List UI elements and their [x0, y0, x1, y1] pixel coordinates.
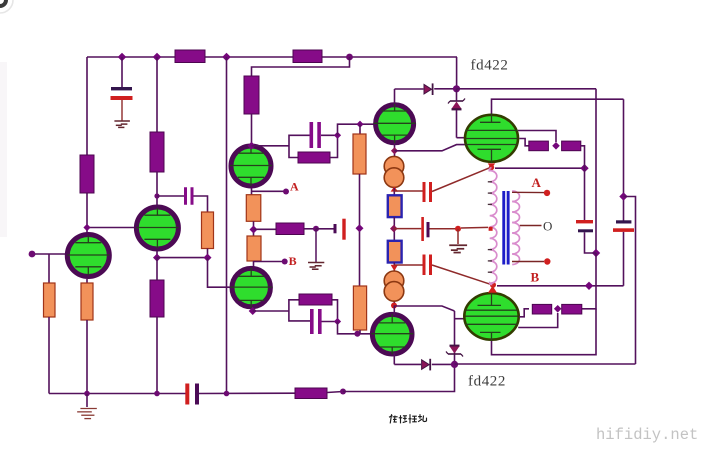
node input terminal — [29, 251, 36, 258]
red arrow V8 cathode — [488, 286, 497, 293]
node bus junction 1 — [118, 53, 127, 62]
wire rail bypass right — [624, 197, 636, 365]
winding upper CCS coil — [384, 156, 404, 187]
svg-text:A: A — [532, 175, 542, 190]
wire grid bias to inner rail — [457, 88, 597, 90]
triode tube V1 input triode — [67, 235, 109, 277]
wire red lower to cap — [394, 264, 422, 266]
resistor R17 tail lower O8 — [353, 286, 366, 330]
wire V6 top lead — [393, 306, 395, 316]
svg-text:fd422: fd422 — [471, 58, 509, 74]
svg-text:O: O — [543, 219, 552, 234]
wire combo left bracket — [289, 135, 310, 157]
zener diode Z1 upper — [448, 99, 465, 110]
wire V5 cathode to V7 grid2 — [395, 145, 466, 151]
wire V8 g2 tap — [518, 313, 558, 328]
resistor R11 step — [298, 152, 330, 163]
wire O5 to V4 — [253, 261, 255, 267]
wire V6 anode down — [393, 353, 395, 364]
wire arrow to blue resistor — [393, 188, 395, 196]
wire secondary tap A — [512, 191, 544, 193]
wire center diamond to cap — [394, 228, 422, 230]
node V6 grid junction — [354, 331, 360, 337]
wire long vertical feedback — [226, 57, 228, 394]
wire V1 anode to V2 grid — [87, 227, 135, 229]
wire red upper to cap — [394, 190, 422, 192]
wire V5 anode up — [394, 89, 396, 103]
resistor R7 V1 cathode — [81, 283, 93, 320]
label chuantong tuidong — [389, 414, 427, 423]
wire O7 to bias junction — [359, 174, 361, 287]
capacitor C12 polarized tap — [421, 217, 424, 241]
resistor R20 bottom row — [532, 304, 551, 314]
capacitor C4 electrolytic in rail — [185, 384, 189, 405]
wire V7 g2 tap — [518, 131, 556, 143]
node V2 cathode junction — [153, 254, 161, 262]
wire anode to diode D1 — [395, 88, 424, 90]
wire O3 bottom to junction — [207, 249, 209, 259]
wire below C8 — [623, 232, 625, 286]
wire V1 cathode — [86, 279, 88, 284]
node rail junction V2 — [154, 391, 160, 397]
resistor R9 in rail — [295, 388, 327, 399]
wire tap ground drop — [457, 229, 459, 244]
node lower combo junction — [334, 318, 341, 325]
diode D1 — [424, 83, 433, 95]
svg-text:A: A — [290, 180, 299, 194]
wire to coupling cap C3 — [157, 195, 184, 197]
resistor R21 bottom row — [562, 304, 582, 314]
node rail corner junction — [340, 389, 346, 395]
node primary center tap — [489, 227, 493, 231]
wire secondary tap O — [520, 225, 542, 227]
node bottom row diamond — [554, 305, 562, 313]
node terminal A — [544, 190, 550, 196]
wire V7 anode up and over — [492, 99, 624, 113]
node grid bias junction lower — [451, 361, 458, 368]
wire V7 plate exit — [519, 139, 529, 146]
wire V8 plate exit — [519, 309, 529, 317]
node V1 anode junction — [83, 224, 90, 231]
wire cathode junction to O3 junction — [157, 257, 208, 259]
wire combo right bracket — [321, 135, 338, 157]
node V7 cathode red dot — [489, 165, 494, 170]
core T1 laminations — [502, 191, 505, 265]
wire RB2 down — [393, 263, 395, 307]
wire O8 to grid node — [359, 330, 361, 334]
wire B node — [254, 261, 285, 263]
node terminal B — [544, 258, 550, 264]
red arrow lower — [391, 265, 398, 271]
svg-text:B: B — [289, 254, 297, 268]
ground G2 — [77, 409, 97, 419]
wire cap to ground — [121, 100, 123, 121]
wire R7 to ground rail — [86, 320, 88, 394]
wire O4 to diamond — [253, 221, 255, 237]
ground G1 — [114, 121, 129, 127]
wire zener to V7 grid — [456, 89, 458, 101]
resistor R12 tail upper O7 — [353, 134, 366, 174]
wire rail to bias junction — [343, 364, 455, 391]
wire bias junction lower to right rail — [455, 363, 636, 365]
node V5 cathode diamond — [391, 147, 398, 154]
ground G4 tap — [449, 245, 467, 252]
wire bus cap drop — [121, 57, 123, 87]
resistor R13 bias O4 — [246, 195, 260, 222]
wire V7 cathode line right — [495, 167, 585, 169]
node combo junction — [334, 132, 341, 139]
svg-text:B: B — [531, 270, 540, 285]
winding T1 secondary — [512, 191, 519, 265]
wire combo to V5 grid — [338, 124, 374, 135]
node rail junction feedback — [224, 391, 230, 397]
diode D2 — [422, 359, 431, 371]
output tube V8 output tube — [464, 292, 518, 341]
wire ground rail left — [49, 393, 186, 395]
resistor RB1 blue upper — [388, 195, 402, 217]
wire V6 cathode to V8 grid2 — [394, 306, 454, 311]
wire RB1 to center diamond — [393, 217, 395, 241]
wire tap to cap — [316, 228, 334, 230]
wire inner rail down — [595, 89, 597, 253]
wire combo to V6 grid — [338, 322, 371, 334]
node bus junction 3 — [222, 53, 231, 62]
resistor R4 V2 anode load — [150, 132, 164, 172]
node bias left junction — [250, 226, 258, 234]
wire cathode junction down — [584, 168, 586, 220]
wire bias chain to R15 — [254, 228, 277, 230]
wire V4 anode to lower combo — [253, 310, 289, 312]
wire V3 junction to RC combo — [252, 145, 290, 147]
triode tube V3 driver triode — [230, 146, 272, 186]
wire rail resistor to corner — [327, 392, 343, 393]
wire R6 to ground rail — [48, 317, 50, 394]
resistor R15 bias middle — [276, 223, 304, 235]
winding T1 primary — [489, 168, 497, 285]
wire V8 cathode line right — [497, 285, 624, 287]
wire input to V1 grid — [35, 253, 65, 255]
wire red diagonal to V8 cathode — [432, 265, 491, 284]
node grid bias junction upper — [453, 85, 460, 92]
node lower cathode diamond — [585, 282, 593, 290]
wire junction down to V4 grid — [208, 258, 230, 288]
winding primary joint ticks — [488, 182, 492, 272]
resistor R3 V1 anode load — [80, 155, 94, 193]
wire B+ left drop to V1 anode — [86, 57, 88, 156]
node V8 cathode red dot — [490, 282, 496, 288]
wire V2 anode lower — [156, 172, 158, 205]
wire D1 to junction — [434, 88, 456, 90]
node A — [283, 189, 289, 195]
resistor R5 grid leak O3 — [202, 212, 214, 249]
node right rail diamond — [619, 192, 627, 200]
wire V2 anode upper — [156, 57, 158, 133]
node tap red dot — [455, 226, 461, 232]
wire C3 to grid resistor O3 — [194, 196, 208, 212]
resistor R10 V3 anode — [244, 76, 259, 114]
decorative corner mark — [0, 0, 8, 8]
resistor R8 V2 cathode — [150, 280, 164, 317]
node bus junction 2 — [153, 53, 162, 62]
node inner rail diamond — [592, 249, 600, 257]
resistor R19 top row — [562, 141, 581, 151]
wire inner rail lower — [582, 253, 596, 309]
zener diode Z2 lower — [446, 346, 463, 357]
wire B+ bus — [87, 56, 457, 58]
wire V5 cathode junction — [394, 143, 396, 157]
capacitor C9 cathode — [576, 220, 593, 223]
capacitor C11 red lower — [423, 255, 426, 276]
triode tube V4 driver triode — [230, 268, 272, 308]
resistor R16 lower step — [299, 294, 332, 305]
resistor R18 top row — [529, 141, 549, 151]
node V4 anode junction — [249, 307, 257, 315]
node center tap diamond — [390, 225, 398, 233]
wire lower combo left bracket — [289, 300, 310, 321]
triode tube V2 triode — [136, 207, 178, 249]
wire D2 to junction — [432, 363, 455, 365]
wire secondary tap B — [512, 261, 544, 263]
resistor R6 input grid — [44, 283, 56, 317]
wire tap to winding — [461, 226, 488, 229]
node bias mid junction — [356, 224, 364, 232]
wire V6 anode to diode D2 — [394, 363, 421, 365]
capacitor C7 lower step cap — [310, 309, 314, 334]
red arrow V7 cathode — [488, 163, 496, 168]
wire V2 cathode to junction — [156, 252, 158, 259]
node bus junction 4 — [346, 54, 353, 61]
wire V8 grid vertical — [454, 311, 456, 364]
resistor RB2 blue lower — [388, 241, 402, 263]
svg-text:fd422: fd422 — [468, 374, 506, 390]
wire R8 to ground rail — [156, 317, 158, 394]
capacitor C3 coupling — [184, 187, 187, 205]
wire red diagonal to V7 cathode — [432, 168, 490, 192]
capacitor C6 polarized bias — [334, 224, 337, 233]
wire lower combo right bracket — [322, 300, 338, 322]
wire R8 top — [156, 258, 158, 280]
resistor R14 bias O5 — [247, 236, 261, 261]
svg-text:hifidiy.net: hifidiy.net — [596, 426, 698, 444]
node ground tap junction — [313, 226, 319, 232]
node V3 anode junction — [248, 142, 256, 150]
wire V3 cathode to A node — [251, 188, 253, 196]
wire right rail outer — [623, 99, 625, 220]
node O3 bottom junction — [204, 254, 212, 262]
wire junction to O7 — [359, 124, 361, 135]
wire inner rail to V8 anode — [492, 309, 597, 355]
node cathode junction diamond — [580, 164, 588, 172]
ground G3 — [308, 263, 324, 270]
wire R10 to V3 — [251, 114, 253, 145]
triode tube V5 cathodyne upper — [374, 104, 416, 144]
wire ground tap down — [315, 229, 317, 262]
output tube V7 output tube — [465, 114, 518, 163]
node V2 anode junction — [154, 193, 159, 198]
resistor R1 bus filter — [175, 50, 205, 63]
capacitor C10 red upper — [423, 182, 426, 202]
wire ground rail middle — [199, 392, 295, 394]
capacitor C8 right rail — [616, 220, 631, 223]
wire R19 to cathode junction — [581, 146, 585, 168]
capacitor C5 step cap — [310, 122, 314, 148]
capacitor C1 electrolytic to ground — [111, 87, 132, 90]
winding lower CCS coil — [384, 271, 404, 301]
red arrow upper — [391, 186, 398, 191]
wire bus corner down — [456, 57, 458, 89]
wire below C9 to inner rail — [585, 232, 597, 253]
wire cap to tap node — [430, 228, 456, 230]
wire V3 anode feed — [252, 57, 350, 76]
wire R15 to ground tap — [304, 228, 316, 230]
node top row diamond — [552, 142, 560, 150]
triode tube V6 cathodyne lower — [371, 314, 413, 354]
wire input to grid resistor — [48, 254, 50, 283]
node V6 cathode red dot — [391, 303, 397, 309]
resistor R2 bus filter — [293, 50, 322, 63]
node rail junction V1 — [84, 391, 90, 397]
node V5 grid junction — [356, 121, 363, 128]
node B — [282, 259, 288, 265]
